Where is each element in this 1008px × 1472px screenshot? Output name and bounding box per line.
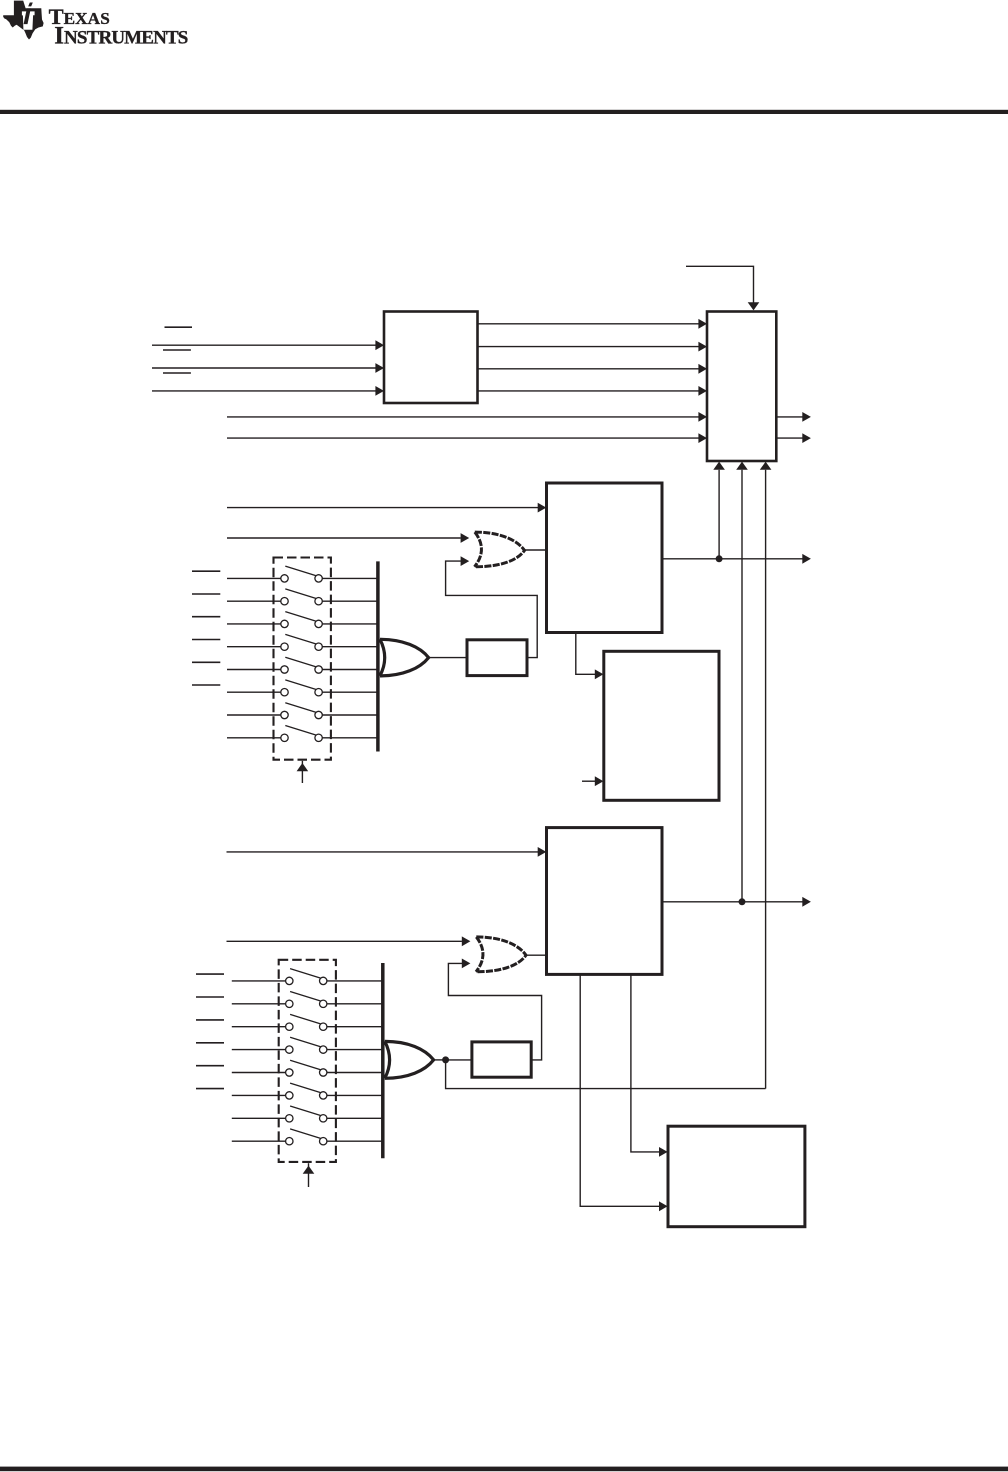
wire: U1 input 3 — [152, 390, 376, 392]
wire: feedback from delay A up to G1 input — [446, 561, 538, 658]
wire: feedback vertical V3 into U2 bottom — [765, 470, 767, 1089]
wire: input to XOR gate A — [227, 537, 461, 539]
label overbar: switch B input 3 — [196, 1019, 224, 1021]
wire: G4 output to junction — [434, 1059, 448, 1061]
wire: U5 bottom output 1 to compare block — [631, 974, 659, 1152]
label overbar: switch A input 5 — [192, 661, 220, 663]
switch SB7 — [232, 1106, 383, 1122]
switch SB2 — [232, 992, 383, 1008]
svg-text:INSTRUMENTS: INSTRUMENTS — [54, 23, 187, 50]
wire: G2 output to delay A — [429, 657, 467, 659]
label overbar: U1 input 3 — [163, 372, 191, 374]
switch SB3 — [232, 1014, 383, 1030]
wire: direct input 1 to U2 — [227, 416, 699, 418]
label overbar: switch B input 5 — [196, 1065, 224, 1067]
junction dot V1 / timer A output — [716, 555, 723, 562]
gate G4: OR gate B (8-input) — [385, 1041, 434, 1078]
switch SB1 — [232, 969, 383, 985]
wire: U1 input 1 — [152, 344, 376, 346]
wire: U2 output 2 — [776, 437, 802, 439]
wire: G1 output to U3 — [525, 549, 547, 551]
switch SA2 — [227, 589, 378, 605]
switch SA1 — [227, 566, 378, 582]
wire: G3 output to U5 — [526, 954, 547, 956]
wire: U1 output 4 to U2 — [478, 390, 700, 392]
junction dot: G4 output — [442, 1056, 449, 1063]
label overbar: switch B input 1 — [196, 973, 224, 975]
wire: feedback from delay B up to G3 input — [448, 963, 541, 1060]
wire: U1 output 3 to U2 — [478, 368, 700, 370]
wire: U2 output 1 — [776, 416, 802, 418]
wire: U1 output 2 to U2 — [478, 346, 700, 348]
label overbar: switch A input 2 — [192, 593, 220, 595]
Texas Instruments logo — [3, 1, 188, 50]
wire: input to XOR gate B — [227, 940, 462, 942]
label overbar: switch A input 1 — [192, 570, 220, 572]
label overbar: switch A input 3 — [192, 616, 220, 618]
wire: select line into top of U2 — [686, 266, 754, 303]
block Z1: delay A (small box) — [467, 640, 527, 676]
wire: U1 input 2 — [152, 367, 376, 369]
block U6: compare (bottom box) — [668, 1126, 805, 1227]
bus bar B — [381, 963, 385, 1158]
switch box A (dashed) — [274, 558, 331, 760]
gate G3: dashed OR gate B — [476, 937, 526, 972]
switch SB5 — [232, 1060, 383, 1076]
wire: feedback vertical V2 into U2 bottom — [741, 470, 743, 902]
wire: U1 output 1 to U2 — [478, 323, 700, 325]
label overbar: switch B input 6 — [196, 1088, 224, 1090]
junction dot V2 / timer B output — [739, 898, 746, 905]
block U5 timer B — [547, 828, 663, 975]
wire: junction to delay B — [446, 1059, 472, 1061]
footer rule — [0, 1467, 1008, 1472]
wire: U3 bottom output to capture block A — [576, 633, 595, 675]
switch SA6 — [227, 680, 378, 696]
block U3 timer A — [547, 483, 663, 633]
switch SA8 — [227, 726, 378, 742]
bus bar A — [376, 561, 380, 751]
wire: U5 timer B output — [662, 901, 803, 903]
block U2 output mux (top-right box) — [707, 312, 776, 462]
label overbar: switch A input 4 — [192, 639, 220, 641]
label overbar: switch B input 4 — [196, 1042, 224, 1044]
wire: U5 bottom output 2 to compare block — [580, 974, 659, 1206]
label overbar: U1 input 1 — [165, 326, 193, 328]
select arrow into switch box B — [308, 1163, 310, 1187]
switch SA7 — [227, 703, 378, 719]
switch SB8 — [232, 1129, 383, 1145]
wire: U3 timer A output — [662, 558, 803, 560]
label overbar: U1 input 2 — [163, 349, 191, 351]
block U1 decoder (top-left box) — [384, 312, 478, 404]
header rule — [0, 110, 1008, 114]
wire: G4 branch down and right to V3 — [446, 1060, 766, 1089]
switch SB6 — [232, 1083, 383, 1099]
gate G1: dashed OR gate A — [475, 532, 525, 567]
switch box B (dashed) — [279, 960, 336, 1162]
wire: direct input 2 to U2 — [227, 437, 699, 439]
switch SA4 — [227, 634, 378, 650]
wire: input to U5 — [227, 851, 539, 853]
switch SB4 — [232, 1037, 383, 1053]
gate G2: OR gate A (8-input) — [380, 639, 429, 676]
select arrow into switch box A — [301, 761, 303, 783]
switch SA3 — [227, 612, 378, 628]
wire: stub input to U4 — [582, 780, 595, 782]
wire: input to U3 — [227, 507, 538, 509]
label overbar: switch A input 6 — [192, 684, 220, 686]
wire: feedback vertical V1 into U2 bottom — [718, 470, 720, 559]
switch SA5 — [227, 657, 378, 673]
block U4: capture A (middle-right box) — [604, 651, 719, 800]
block Z2: delay B (small box) — [472, 1042, 531, 1077]
label overbar: switch B input 2 — [196, 996, 224, 998]
